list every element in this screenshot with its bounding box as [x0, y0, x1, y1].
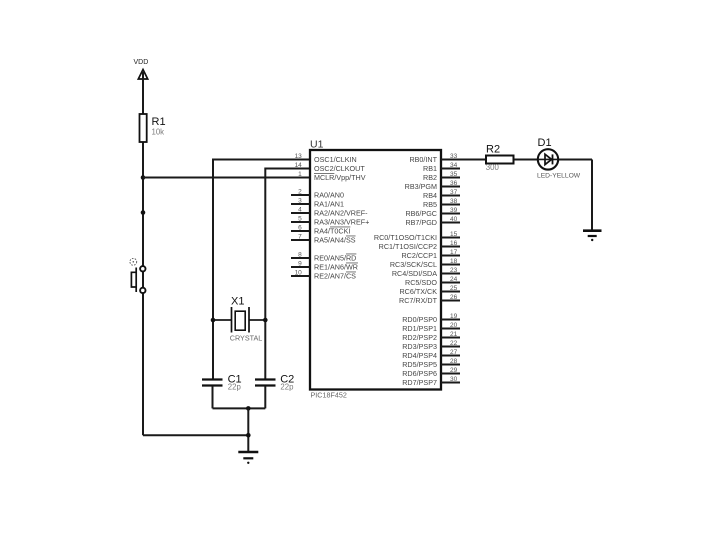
svg-text:RB2: RB2 [423, 173, 437, 182]
pin 10 RE2/AN7/CS stub [291, 275, 310, 277]
node junction bottom rail [246, 406, 251, 411]
wire C1 bottom [212, 386, 214, 408]
pin 24 RC5/SDO stub [441, 282, 460, 284]
svg-text:39: 39 [450, 207, 458, 214]
svg-text:6: 6 [298, 225, 302, 232]
svg-text:RB1: RB1 [423, 164, 437, 173]
svg-text:RA2/AN2/VREF-: RA2/AN2/VREF- [314, 209, 368, 218]
pin 37 RB4 stub [441, 195, 460, 197]
pin 21 RD2/PSP2 stub [441, 337, 460, 339]
svg-text:14: 14 [295, 162, 303, 169]
push button bottom contact [140, 288, 145, 293]
svg-text:RA5/AN4/SS: RA5/AN4/SS [314, 236, 356, 245]
pin 3 RA1/AN1 stub [291, 203, 310, 205]
pin 26 RC7/RX/DT stub [441, 300, 460, 302]
svg-text:21: 21 [450, 331, 458, 338]
pin 6 RA4/T0CKI stub [291, 230, 310, 232]
svg-text:3: 3 [298, 198, 302, 205]
svg-text:25: 25 [450, 285, 458, 292]
pin 28 RD5/PSP5 stub [441, 364, 460, 366]
svg-text:34: 34 [450, 162, 458, 169]
svg-text:RA0/AN0: RA0/AN0 [314, 191, 344, 200]
svg-text:2: 2 [298, 189, 302, 196]
svg-text:D1: D1 [538, 137, 552, 149]
svg-text:22: 22 [450, 340, 458, 347]
pin 40 RB7/PGD stub [441, 222, 460, 224]
resistor R1 body [140, 114, 147, 142]
svg-text:5: 5 [298, 216, 302, 223]
wire crystal left [213, 319, 232, 321]
node junction on left rail [141, 210, 146, 215]
push button actuator dashed circle [130, 258, 137, 265]
pin 5 RA3/AN3/VREF+ stub [291, 221, 310, 223]
pin 34 RB1 stub [441, 168, 460, 170]
pin 15 RC0/T1OSO/T1CKI stub [441, 237, 460, 239]
svg-text:RB7/PGD: RB7/PGD [405, 218, 437, 227]
node junction crystal right [263, 318, 268, 323]
svg-text:20: 20 [450, 322, 458, 329]
pin 8 RE0/AN5/RD stub [291, 257, 310, 259]
wire through LED D1 [538, 158, 558, 160]
pin 30 RD7/PSP7 stub [441, 382, 460, 384]
pin 39 RB6/PGC stub [441, 213, 460, 215]
svg-text:RE1/AN6/WR: RE1/AN6/WR [314, 263, 358, 272]
svg-text:RD6/PSP6: RD6/PSP6 [402, 369, 437, 378]
svg-text:18: 18 [450, 258, 458, 265]
crystal X1 left plate [231, 307, 233, 333]
pin 18 RC3/SCK/SCL stub [441, 264, 460, 266]
svg-text:7: 7 [298, 234, 302, 241]
svg-text:36: 36 [450, 180, 458, 187]
svg-text:RA3/AN3/VREF+: RA3/AN3/VREF+ [314, 218, 369, 227]
svg-text:4: 4 [298, 207, 302, 214]
svg-text:RD7/PSP7: RD7/PSP7 [402, 378, 437, 387]
capacitor C1 top plate [202, 378, 223, 380]
pin 38 RB5 stub [441, 204, 460, 206]
LED D1 triangle [545, 154, 552, 164]
svg-text:RA4/T0CKI: RA4/T0CKI [314, 227, 350, 236]
svg-text:RB0/INT: RB0/INT [409, 155, 437, 164]
svg-text:9: 9 [298, 261, 302, 268]
pin 2 RA0/AN0 stub [291, 194, 310, 196]
svg-text:RD0/PSP0: RD0/PSP0 [402, 315, 437, 324]
wire cap bottom rail [213, 407, 266, 409]
wire pin1 to left rail [143, 177, 310, 179]
svg-text:RB3/PGM: RB3/PGM [405, 182, 437, 191]
node junction ground branch [246, 433, 251, 438]
pin 35 RB2 stub [441, 177, 460, 179]
VDD power arrow symbol [138, 70, 147, 80]
svg-text:RD3/PSP3: RD3/PSP3 [402, 342, 437, 351]
pin 19 RD0/PSP0 stub [441, 319, 460, 321]
svg-text:22p: 22p [280, 383, 294, 392]
svg-text:17: 17 [450, 249, 458, 256]
svg-text:RC1/T1OSI/CCP2: RC1/T1OSI/CCP2 [379, 242, 437, 251]
svg-text:37: 37 [450, 189, 458, 196]
svg-text:RC2/CCP1: RC2/CCP1 [401, 251, 437, 260]
pin 17 RC2/CCP1 stub [441, 255, 460, 257]
LED D1 cathode bar [552, 154, 554, 164]
svg-text:RD2/PSP2: RD2/PSP2 [402, 333, 437, 342]
svg-text:26: 26 [450, 294, 458, 301]
svg-text:R2: R2 [486, 144, 500, 156]
pin 22 RD3/PSP3 stub [441, 346, 460, 348]
pin 23 RC4/SDI/SDA stub [441, 273, 460, 275]
svg-text:40: 40 [450, 216, 458, 223]
crystal X1 right plate [248, 307, 250, 333]
capacitor C2 top plate [255, 378, 276, 380]
wire crystal right [249, 319, 265, 321]
svg-text:RE0/AN5/RD: RE0/AN5/RD [314, 254, 356, 263]
push button plunger bar [135, 268, 137, 293]
wire pin14 to right branch [265, 169, 310, 380]
svg-text:LED-YELLOW: LED-YELLOW [537, 173, 581, 180]
op-amp U1 chip body PIC18F452 [310, 150, 441, 390]
svg-text:10: 10 [295, 270, 303, 277]
svg-text:RD5/PSP5: RD5/PSP5 [402, 360, 437, 369]
svg-text:8: 8 [298, 252, 302, 259]
svg-text:RC3/SCK/SCL: RC3/SCK/SCL [390, 260, 437, 269]
wire C2 bottom [264, 386, 266, 408]
wire LED to ground [591, 160, 593, 230]
pin 36 RB3/PGM stub [441, 186, 460, 188]
svg-text:300: 300 [486, 163, 500, 172]
resistor R2 body [486, 156, 514, 164]
node junction crystal left [211, 318, 216, 323]
wire VDD to R1 and down left rail [142, 72, 144, 435]
capacitor C2 bottom plate [255, 384, 276, 386]
svg-text:28: 28 [450, 358, 458, 365]
pin 20 RD1/PSP1 stub [441, 328, 460, 330]
svg-text:OSC1/CLKIN: OSC1/CLKIN [314, 155, 357, 164]
svg-text:29: 29 [450, 367, 458, 374]
svg-text:23: 23 [450, 267, 458, 274]
svg-text:OSC2/CLKOUT: OSC2/CLKOUT [314, 164, 365, 173]
svg-text:RB4: RB4 [423, 191, 437, 200]
svg-text:VDD: VDD [134, 59, 149, 66]
svg-text:RD4/PSP4: RD4/PSP4 [402, 351, 437, 360]
svg-text:RD1/PSP1: RD1/PSP1 [402, 324, 437, 333]
svg-text:10k: 10k [152, 128, 165, 137]
pin 16 RC1/T1OSI/CCP2 stub [441, 246, 460, 248]
svg-text:27: 27 [450, 349, 458, 356]
svg-text:RC0/T1OSO/T1CKI: RC0/T1OSO/T1CKI [374, 233, 437, 242]
ground symbol bottom [238, 452, 258, 464]
svg-text:1: 1 [298, 171, 302, 178]
pin 9 RE1/AN6/WR stub [291, 266, 310, 268]
svg-text:24: 24 [450, 276, 458, 283]
svg-text:RC7/RX/DT: RC7/RX/DT [399, 296, 438, 305]
pin 25 RC6/TX/CK stub [441, 291, 460, 293]
svg-text:15: 15 [450, 231, 458, 238]
svg-text:35: 35 [450, 171, 458, 178]
svg-text:13: 13 [295, 153, 303, 160]
svg-text:22p: 22p [228, 383, 242, 392]
svg-text:U1: U1 [310, 139, 324, 151]
svg-text:PIC18F452: PIC18F452 [311, 391, 347, 400]
svg-text:MCLR/Vpp/THV: MCLR/Vpp/THV [314, 173, 366, 182]
ground symbol right [583, 231, 602, 242]
svg-text:RC5/SDO: RC5/SDO [405, 278, 437, 287]
svg-text:RC6/TX/CK: RC6/TX/CK [399, 287, 437, 296]
svg-text:30: 30 [450, 376, 458, 383]
crystal X1 body [235, 311, 245, 330]
svg-text:X1: X1 [231, 296, 244, 308]
pin 7 RA5/AN4/SS stub [291, 239, 310, 241]
pin 29 RD6/PSP6 stub [441, 373, 460, 375]
node junction at pin1 wire [141, 175, 146, 180]
wire down to ground node [247, 408, 249, 451]
push button top contact [140, 266, 145, 271]
pin 27 RD4/PSP4 stub [441, 355, 460, 357]
svg-text:RB5: RB5 [423, 200, 437, 209]
svg-text:19: 19 [450, 313, 458, 320]
svg-text:RB6/PGC: RB6/PGC [405, 209, 437, 218]
capacitor C1 bottom plate [202, 384, 223, 386]
svg-text:RA1/AN1: RA1/AN1 [314, 200, 344, 209]
svg-text:16: 16 [450, 240, 458, 247]
svg-text:RE2/AN7/CS: RE2/AN7/CS [314, 272, 356, 281]
svg-text:R1: R1 [152, 116, 166, 128]
pin 4 RA2/AN2/VREF- stub [291, 212, 310, 214]
wire left rail to ground node [143, 434, 248, 436]
svg-text:RC4/SDI/SDA: RC4/SDI/SDA [392, 269, 437, 278]
svg-text:CRYSTAL: CRYSTAL [230, 334, 262, 343]
LED D1 circle [538, 149, 558, 169]
wire pin33 to R2 to LED [441, 159, 592, 161]
wire pin13 to left branch [213, 160, 310, 380]
svg-text:38: 38 [450, 198, 458, 205]
push button bracket [131, 272, 136, 287]
